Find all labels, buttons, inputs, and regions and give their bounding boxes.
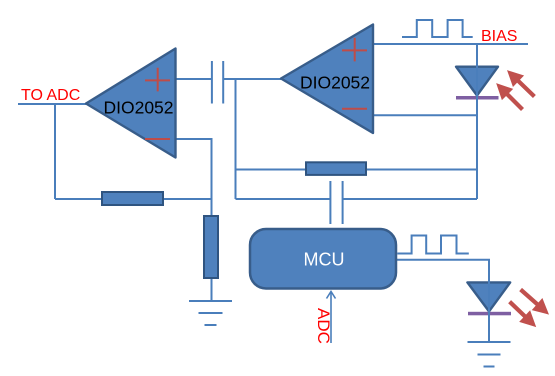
svg-text:BIAS: BIAS	[481, 28, 517, 45]
svg-text:DIO2052: DIO2052	[103, 98, 173, 118]
svg-text:DIO2052: DIO2052	[300, 73, 370, 93]
svg-text:ADC: ADC	[314, 308, 333, 344]
svg-text:TO ADC: TO ADC	[21, 87, 80, 104]
svg-text:MCU: MCU	[304, 250, 345, 270]
